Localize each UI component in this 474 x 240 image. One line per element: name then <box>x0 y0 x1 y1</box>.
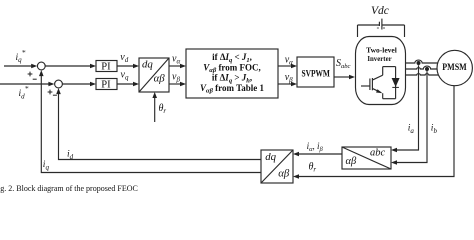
wire sensor ia down <box>397 65 419 150</box>
resistor PI1 box <box>96 61 117 72</box>
svg-text:Sabc: Sabc <box>336 58 351 70</box>
svg-text:PI: PI <box>101 61 111 72</box>
svg-text:vα: vα <box>172 54 180 66</box>
wire ifblock to SVPWM vbeta <box>278 83 292 85</box>
wire dq1 to ifblock vbeta <box>169 83 181 85</box>
wire junction1 to PI1 <box>45 65 90 67</box>
wire S_abc SVPWM to inverter <box>334 76 350 78</box>
transistor Q1 IGBT rails <box>383 66 396 68</box>
wire theta_r into dq1 <box>154 97 156 122</box>
svg-text:Fig. 2. Block diagram of the: Fig. 2. Block diagram of the proposed FE… <box>0 184 138 193</box>
arrowhead into dq1 vq <box>133 82 139 87</box>
arrowhead into SVPWM vbeta <box>291 82 297 87</box>
wire phase line c <box>406 74 439 75</box>
svg-text:PMSM: PMSM <box>442 62 467 72</box>
arrowhead ib into abc block <box>391 160 397 165</box>
svg-text:αβ: αβ <box>278 167 290 179</box>
wire ialpha ibeta to dq2 <box>299 153 342 155</box>
arrowhead into junction1 <box>31 64 37 69</box>
diode D1 triangle <box>392 78 400 87</box>
wire encoder theta down <box>299 86 454 177</box>
svg-text:dq: dq <box>265 151 276 163</box>
block SVPWM <box>297 57 334 87</box>
svg-text:Inverter: Inverter <box>367 54 392 63</box>
wire PI2 to dq1 <box>117 83 134 85</box>
block abc to alphabeta <box>342 147 391 169</box>
wire i_q* input <box>4 65 35 67</box>
label plus junction2 <box>48 91 53 93</box>
svg-text:θr: θr <box>159 103 167 115</box>
emitter arrowhead IGBT <box>376 89 382 93</box>
svg-text:αβ: αβ <box>154 72 166 84</box>
svg-text:vd: vd <box>120 52 128 64</box>
svg-text:ia: ia <box>408 124 415 135</box>
svg-text:vβ: vβ <box>285 72 293 84</box>
battery Vdc plates <box>378 22 380 26</box>
svg-text:vq: vq <box>121 69 129 81</box>
svg-text:dq: dq <box>142 59 153 71</box>
arrowhead up into junction1 <box>39 70 44 76</box>
svg-text:iq*: iq* <box>16 48 26 64</box>
wire Vdc dc-link top <box>358 24 380 26</box>
arrowhead ia into abc block <box>391 148 397 153</box>
block dq2 transform <box>261 150 293 183</box>
resistor PI2 box <box>96 79 117 90</box>
wire sensor ib down <box>397 71 427 162</box>
arrowhead S_abc into inverter <box>349 75 355 80</box>
svg-text:abc: abc <box>370 148 386 159</box>
arrowhead into PI2 <box>90 82 96 87</box>
wire i_q feedback <box>41 72 261 173</box>
motor PMSM circle <box>437 50 472 85</box>
block two-level inverter <box>356 37 406 105</box>
svg-text:ib: ib <box>431 124 438 135</box>
diode D1 <box>395 67 397 99</box>
svg-text:id: id <box>67 150 74 161</box>
svg-text:Vdc: Vdc <box>371 5 389 17</box>
arrowhead into dq1 vd <box>133 64 139 69</box>
label minus junction2 <box>53 94 57 96</box>
svg-text:SVPWM: SVPWM <box>301 70 330 80</box>
node sum junction 2 <box>55 80 63 88</box>
arrowhead theta into dq1 <box>152 92 157 98</box>
arrowhead into ifblock valpha <box>180 64 186 69</box>
arrowhead into SVPWM valpha <box>291 64 297 69</box>
wire ifblock to SVPWM valpha <box>278 65 292 67</box>
node sum junction 1 <box>37 62 45 70</box>
wire phase line b <box>406 66 438 69</box>
label minus junction1 <box>33 78 37 80</box>
wire i_d* input <box>0 83 53 85</box>
arrowhead ialpha into dq2 <box>293 152 299 157</box>
wire junction2 to PI2 <box>62 83 90 85</box>
wire phase line a <box>406 60 438 63</box>
wire dq1 to ifblock valpha <box>169 65 181 67</box>
arrowhead theta into dq2 <box>293 174 299 179</box>
wire PI1 to dq1 <box>117 65 134 67</box>
svg-text:iα, iβ: iα, iβ <box>307 141 324 153</box>
svg-text:θr: θr <box>309 162 317 174</box>
svg-text:vα: vα <box>285 54 293 66</box>
arrowhead into ifblock vbeta <box>180 82 186 87</box>
svg-text:αβ: αβ <box>346 156 358 167</box>
arrowhead up into junction2 <box>56 88 61 94</box>
arrowhead into PI1 <box>90 64 96 69</box>
arrowhead into junction2 <box>48 82 54 87</box>
svg-text:iq: iq <box>43 160 50 171</box>
block if FOC selector <box>186 49 278 98</box>
diode D1 cathode bar <box>392 86 399 88</box>
svg-text:PI: PI <box>101 80 111 91</box>
svg-text:vβ: vβ <box>172 72 180 84</box>
wire i_d feedback <box>59 90 262 160</box>
block dq1 transform <box>139 58 169 92</box>
node dot ib sensor <box>425 67 429 71</box>
label plus junction1 <box>28 73 33 75</box>
node dot ia sensor <box>417 61 421 65</box>
svg-text:id*: id* <box>19 84 29 100</box>
